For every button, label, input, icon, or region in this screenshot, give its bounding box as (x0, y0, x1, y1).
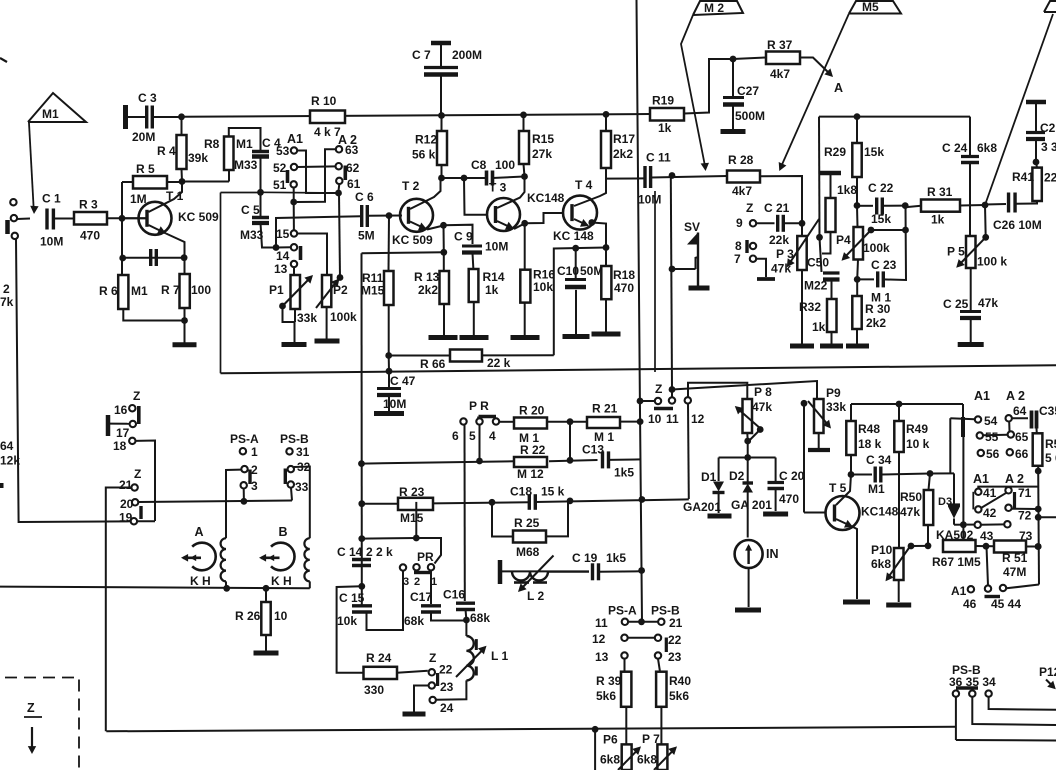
svg-text:8: 8 (735, 239, 742, 253)
contact 14 (276, 244, 297, 263)
wire 32 to coil B (294, 467, 310, 539)
resistor R21 (587, 402, 640, 445)
resistor R8 (204, 137, 258, 173)
wire R23 line to contact 12 column (641, 498, 689, 501)
node C21/P3 top (799, 220, 806, 227)
node R41 top (1033, 159, 1040, 168)
svg-text:A: A (195, 525, 204, 539)
svg-text:23: 23 (668, 650, 682, 664)
wire L1 bottom to contact 24 (436, 680, 466, 699)
svg-text:T 5: T 5 (829, 481, 847, 495)
contact 1 lower (428, 564, 437, 588)
wire M2 leader with arrow (681, 15, 709, 171)
contact 21 left (119, 478, 138, 492)
wire contact 5 down (479, 425, 481, 461)
P2 ground (315, 307, 340, 341)
svg-text:6: 6 (452, 429, 459, 443)
svg-text:16: 16 (114, 403, 128, 417)
ground P10 (886, 580, 911, 605)
svg-text:R 30: R 30 (865, 302, 891, 316)
svg-text:5k6: 5k6 (669, 689, 689, 703)
wire contact 23 to ground (403, 686, 429, 715)
resistor R16 (520, 268, 555, 303)
node C19 on Z bus (638, 567, 645, 574)
wire vertical Z chain x=361 (361, 253, 363, 586)
capacitor C18 (510, 485, 641, 510)
node C11 right (669, 172, 676, 179)
svg-text:27k: 27k (532, 147, 552, 161)
svg-text:100 k: 100 k (977, 255, 1007, 269)
svg-text:M68: M68 (516, 545, 540, 559)
wire C11 node down (Z bus) (671, 177, 672, 390)
svg-text:P R: P R (469, 399, 489, 413)
svg-text:21: 21 (669, 616, 683, 630)
svg-text:K H: K H (190, 574, 211, 588)
node T2 emitter (440, 222, 447, 229)
potentiometer P9 (814, 386, 846, 433)
wire M1 leader with arrow (29, 123, 39, 214)
P12 arrow (1046, 680, 1056, 690)
wire R13 node to Z-line (362, 251, 444, 254)
svg-text:4: 4 (489, 429, 496, 443)
svg-text:PS-B: PS-B (280, 432, 309, 446)
resistor R31 (905, 185, 985, 227)
contact 63 (336, 143, 359, 157)
capacitor C13 (582, 443, 640, 480)
capacitor C22 (857, 181, 905, 226)
capacitor C34 (851, 453, 930, 496)
svg-text:1k: 1k (931, 213, 945, 227)
transistor T3 (487, 181, 565, 232)
svg-text:2: 2 (414, 576, 420, 588)
svg-text:53: 53 (276, 144, 290, 158)
node R20/R21 (548, 418, 587, 425)
node under 51 (290, 199, 297, 206)
resistor R52 (1033, 429, 1056, 466)
contact 2 lower (413, 564, 420, 588)
wire tall vertical Z bus (637, 0, 643, 622)
svg-text:39k: 39k (188, 151, 208, 165)
resistor R37 (733, 38, 800, 81)
switch bar 20-19 (139, 506, 142, 519)
node C18 left (489, 499, 496, 506)
wire diode rail (719, 457, 776, 459)
pennant corner top right (1044, 1, 1056, 12)
wire C6 to T2 base (368, 215, 402, 217)
P10 wiper arrow (886, 547, 911, 582)
svg-text:C 1: C 1 (42, 192, 61, 206)
label KA502 (936, 528, 974, 542)
ground R18 (592, 299, 621, 334)
svg-text:T 4: T 4 (575, 178, 593, 192)
node C4/box-top (257, 189, 264, 196)
node C47 on mid rail (386, 356, 393, 375)
svg-text:17: 17 (116, 426, 130, 440)
wire left stub at C27 node (712, 58, 733, 60)
P9 wiper arrow (808, 401, 831, 429)
wire bottom rail (106, 727, 956, 732)
node above contact 11 (669, 386, 676, 393)
svg-text:15 k: 15 k (541, 485, 565, 499)
svg-text:R49: R49 (906, 422, 928, 436)
svg-text:330: 330 (364, 683, 384, 697)
svg-text:68k: 68k (404, 614, 424, 628)
contact 32 psb (285, 460, 310, 484)
node P8 bottom (744, 433, 751, 458)
switch bar 22-23 (436, 673, 439, 686)
capacitor C9 (454, 230, 508, 254)
resistor R10 (310, 94, 345, 139)
label A1 upper-right (974, 389, 990, 403)
svg-text:61: 61 (347, 177, 361, 191)
svg-text:R19: R19 (652, 94, 674, 108)
svg-text:A 2: A 2 (1005, 472, 1024, 486)
svg-text:1: 1 (251, 445, 258, 459)
switch PR upper (469, 399, 496, 424)
contact 2 psa (241, 463, 258, 484)
head A symbol (192, 525, 216, 570)
dashed box (5, 678, 79, 770)
pennant M1 (28, 93, 86, 122)
contact 73 (1004, 521, 1032, 543)
capacitor C21 (756, 201, 802, 247)
wire T5 emitter (836, 519, 857, 599)
contact 22 mid (628, 633, 682, 647)
contact 9 (736, 216, 756, 230)
wire C1 to R3 (54, 218, 74, 220)
svg-text:66: 66 (1015, 447, 1029, 461)
wire emitter node down to R13 node (443, 225, 445, 252)
svg-text:Z: Z (429, 651, 436, 665)
svg-text:5k6: 5k6 (596, 689, 616, 703)
svg-text:6k8: 6k8 (977, 141, 997, 155)
svg-text:T 3: T 3 (489, 181, 507, 195)
svg-text:13: 13 (595, 650, 609, 664)
svg-text:5 6: 5 6 (1045, 451, 1056, 465)
capacitor C23 (857, 206, 906, 305)
contact 44 (991, 585, 1021, 611)
partial labels R64 (0, 439, 20, 468)
contact 7 (734, 252, 756, 266)
label A1 upper (287, 132, 303, 146)
wire C15 bottom to contact 3' (367, 571, 404, 630)
node PR lower top (362, 502, 420, 541)
stub to SV (669, 257, 698, 272)
P9 end bar (808, 433, 830, 450)
svg-text:P1: P1 (269, 283, 284, 297)
wire 36 to rail (956, 697, 1056, 741)
svg-text:C 11: C 11 (646, 151, 671, 165)
contact 55 (977, 430, 999, 444)
svg-text:22: 22 (668, 633, 682, 647)
node R7 bottom (181, 317, 188, 324)
contact 64 (1006, 404, 1027, 431)
svg-text:L 1: L 1 (491, 649, 508, 663)
svg-text:KC 509: KC 509 (178, 210, 219, 224)
contact 61 (336, 177, 361, 191)
wire diagonal from top-right pennant (985, 14, 1053, 205)
wire long Z line from 20 (138, 501, 292, 503)
svg-text:6k8: 6k8 (637, 753, 657, 767)
wire M5 leader with arrow (779, 14, 849, 172)
contact 35 (969, 690, 975, 696)
node T1 base (119, 215, 126, 222)
svg-text:18: 18 (113, 439, 127, 453)
wire base node down to R6 (121, 218, 123, 274)
svg-text:R 26: R 26 (235, 609, 261, 623)
svg-text:R 20: R 20 (519, 404, 545, 418)
wire 12 top to P8 (688, 383, 747, 399)
head A track arrow (181, 554, 201, 562)
svg-text:12k: 12k (0, 454, 20, 468)
node R22/C13 mid (567, 457, 574, 464)
svg-text:6k8: 6k8 (871, 557, 891, 571)
label A2 upper-right (1006, 389, 1025, 403)
contact 15 (276, 227, 297, 241)
wire 21 left loop (106, 488, 132, 732)
capacitor C35 (1012, 404, 1056, 429)
contact 51 (273, 178, 297, 192)
svg-text:100k: 100k (863, 241, 890, 255)
wire left edge vertical (16, 239, 19, 522)
label KH A (190, 574, 211, 588)
capacitor C7 (412, 43, 482, 116)
svg-text:15k: 15k (871, 212, 891, 226)
svg-text:C 21: C 21 (764, 201, 790, 215)
node T3 emitter (521, 220, 528, 227)
node contact 3 branch (241, 498, 248, 505)
wire to PS-B 33 (291, 488, 292, 501)
P5 wiper arrow (956, 205, 989, 268)
resistor R13 (414, 252, 449, 304)
capacitor C50 (804, 256, 840, 293)
switch bar 62-61 (343, 166, 347, 181)
svg-text:10: 10 (274, 609, 288, 623)
svg-text:R 28: R 28 (728, 153, 754, 167)
svg-text:R 4: R 4 (157, 144, 176, 158)
capacitor C5 (240, 192, 269, 242)
label PS-B bottom (952, 663, 981, 677)
wire R12 bottom to C8 line (442, 165, 465, 178)
label PS-A (230, 432, 259, 446)
wire P9 wiper to T5 base (804, 404, 827, 513)
svg-text:KC 148: KC 148 (553, 229, 594, 243)
contact 13 mid (595, 650, 628, 664)
svg-text:15k: 15k (864, 145, 884, 159)
node R15 top (520, 112, 527, 119)
svg-text:C 9: C 9 (454, 230, 473, 244)
svg-text:R 25: R 25 (514, 516, 540, 530)
node C14 bottom (358, 583, 365, 590)
svg-text:4k7: 4k7 (770, 67, 790, 81)
resistor R41 (1012, 168, 1056, 205)
capacitor C8 (464, 158, 524, 186)
svg-text:R 3: R 3 (79, 198, 98, 212)
svg-text:33: 33 (295, 480, 309, 494)
svg-text:31: 31 (296, 445, 310, 459)
coil B winding (304, 538, 309, 588)
ground left edge (0, 483, 4, 488)
svg-text:C 25: C 25 (943, 297, 969, 311)
wire 34 down (989, 697, 1056, 710)
svg-text:A1: A1 (974, 389, 990, 403)
resistor R15 (519, 115, 554, 164)
contact 4 (489, 418, 499, 443)
label A2 upper (338, 133, 357, 147)
svg-text:D2: D2 (729, 469, 745, 483)
wire R8 top loop to C4 (229, 128, 261, 150)
svg-text:R14: R14 (483, 270, 505, 284)
node C7/rail (438, 112, 445, 119)
label PS-B (280, 432, 309, 446)
node P2 wiper top (335, 190, 342, 197)
potentiometer P6 (600, 733, 632, 770)
svg-text:KC 509: KC 509 (392, 233, 433, 247)
label Z at 9 (746, 201, 753, 215)
wire 42-71 diagonal (981, 493, 1006, 508)
resistor R12 (412, 116, 447, 166)
P7 wiper arrow (654, 746, 677, 770)
meter IN (735, 540, 779, 568)
svg-text:Z: Z (134, 467, 141, 481)
svg-text:C 7: C 7 (412, 48, 431, 62)
svg-text:2k2: 2k2 (418, 283, 438, 297)
svg-text:M1: M1 (131, 284, 148, 298)
node bus R51 (1035, 543, 1042, 550)
svg-text:B: B (279, 525, 288, 539)
capacitor C20 (768, 458, 805, 512)
wire P9 feed (672, 381, 817, 399)
svg-text:C 22: C 22 (868, 181, 894, 195)
svg-text:3: 3 (251, 479, 258, 493)
svg-text:KC148: KC148 (527, 191, 565, 205)
svg-text:2: 2 (3, 282, 10, 296)
svg-text:R15: R15 (532, 132, 554, 146)
svg-text:20M: 20M (132, 130, 155, 144)
svg-text:63: 63 (345, 143, 359, 157)
svg-text:R 10: R 10 (311, 94, 337, 108)
wire 12 bottom to R23 line (687, 403, 690, 499)
wire T3 emitter to T4 base (525, 213, 564, 223)
inductor L1 (466, 620, 508, 680)
wire 72 to bus (1012, 508, 1038, 510)
node R21 right on Z bus (637, 418, 644, 425)
resistor R19 (650, 94, 684, 136)
diode D1 GA201 (683, 458, 725, 515)
svg-text:C 47: C 47 (390, 374, 416, 388)
svg-text:R 6: R 6 (99, 284, 118, 298)
node T4 emitter column (603, 244, 610, 251)
resistor R17 (601, 114, 635, 168)
svg-text:22 k: 22 k (487, 356, 511, 370)
svg-text:1k: 1k (658, 121, 672, 135)
P1 wiper arrow (279, 275, 313, 309)
node R66 left (385, 352, 392, 359)
svg-text:51: 51 (273, 178, 287, 192)
wire input to C1 (17, 218, 30, 221)
contact 13 (274, 261, 297, 276)
node P6 feed (592, 726, 599, 770)
resistor R7 (161, 274, 211, 308)
svg-text:GA 201: GA 201 (731, 498, 772, 512)
wire rail corner down to P3 wiper (816, 117, 823, 272)
wire T3 collector (497, 177, 525, 209)
P3 wiper arrow (787, 219, 819, 267)
svg-text:Z: Z (27, 701, 35, 715)
svg-text:R 37: R 37 (767, 38, 793, 52)
wire 51 down (293, 188, 295, 230)
svg-text:71: 71 (1018, 486, 1032, 500)
capacitor C11 (606, 151, 671, 207)
shield box top edge (221, 191, 339, 194)
svg-text:7k: 7k (0, 295, 14, 309)
label Z 21 group (134, 467, 141, 481)
wire T1 emitter (149, 225, 185, 274)
wire R28 to P3 column (760, 176, 802, 223)
wire 19 line (19, 520, 155, 523)
resistor R51 (994, 541, 1038, 580)
svg-text:47k: 47k (752, 400, 772, 414)
L2 tuning arrow (518, 556, 554, 593)
contact 19 (119, 511, 137, 525)
P6 wiper arrow (618, 746, 641, 770)
switch bar 52-51 (286, 170, 290, 183)
coil A winding (221, 538, 226, 588)
svg-text:A 2: A 2 (1006, 389, 1025, 403)
wire T3 emitter (497, 221, 525, 230)
svg-text:4 k 7: 4 k 7 (314, 125, 341, 139)
label Z at 22 (429, 651, 436, 665)
node R29 bottom (854, 177, 861, 209)
svg-text:R 13: R 13 (414, 270, 440, 284)
label PS-B mid (651, 604, 680, 618)
node R48 bottom (848, 455, 855, 478)
svg-text:47k: 47k (978, 296, 998, 310)
svg-text:470: 470 (779, 492, 799, 506)
contact 24 z (430, 697, 454, 715)
svg-text:470: 470 (80, 229, 100, 243)
wire 11-21 (628, 618, 658, 625)
resistor R23 (362, 485, 530, 525)
svg-text:45 44: 45 44 (991, 597, 1021, 611)
wire R4 node to R8 (182, 170, 229, 182)
wire R39 down (625, 707, 627, 745)
svg-text:KC148: KC148 (861, 505, 899, 519)
wire 55-65 (983, 434, 1008, 437)
resistor R49 (894, 404, 929, 452)
wire T1 collector (149, 182, 183, 213)
resistor R20 (514, 404, 547, 446)
wire C5 bottom to contact 14 (261, 223, 277, 248)
capacitor C3 (126, 91, 182, 144)
svg-text:SV: SV (684, 220, 700, 234)
ground IN (735, 568, 761, 610)
P8 wiper tie (748, 426, 763, 441)
node R13 top (440, 249, 447, 256)
switch bar lower PR (414, 571, 430, 574)
node P4 bottom (854, 260, 861, 283)
node R22 line left (358, 460, 365, 467)
node C22 out (902, 202, 909, 209)
svg-text:100: 100 (495, 158, 515, 172)
node C27/R37 (730, 56, 737, 63)
node R26 top (263, 585, 270, 592)
svg-text:3: 3 (403, 576, 409, 588)
contact 31 psb (286, 445, 309, 459)
bar 36-35 (956, 686, 978, 689)
svg-text:41: 41 (983, 486, 997, 500)
head B symbol (271, 525, 295, 570)
